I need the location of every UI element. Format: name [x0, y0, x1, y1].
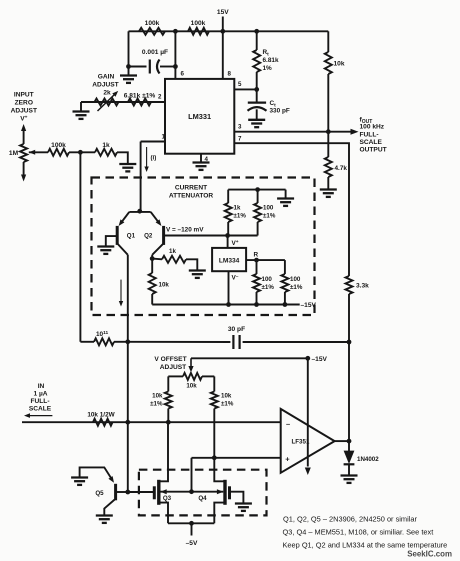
svg-text:Q1, Q2, Q5 – 2N3906, 2N4250 or: Q1, Q2, Q5 – 2N3906, 2N4250 or similar [283, 515, 417, 524]
label -15V op [312, 356, 328, 363]
resistor 4.7k [325, 132, 332, 190]
transistor Q5 collector [104, 500, 114, 516]
resistor 100k (input) [48, 149, 69, 156]
resistor 1k (input) [95, 149, 117, 156]
transistor Q1 emitter [119, 212, 130, 226]
node junction summing [125, 339, 130, 344]
label SCALE [29, 406, 52, 413]
svg-text:OUTPUT: OUTPUT [360, 147, 387, 154]
wire 1e11 to node [114, 341, 128, 343]
svg-text:2k: 2k [103, 90, 111, 97]
wire pin 2 gain [81, 101, 165, 103]
label 10k 1/2W [87, 412, 115, 419]
svg-text:Q4: Q4 [198, 495, 207, 502]
transistor Q4 channel bar [223, 480, 226, 505]
transistor Q4 source [214, 503, 224, 524]
svg-text:±1%: ±1% [263, 213, 276, 220]
ground (pin 4) [193, 163, 210, 170]
svg-text:100k: 100k [51, 142, 66, 149]
svg-text:10k 1/2W: 10k 1/2W [87, 412, 115, 419]
resistor 1k (Q2 collector) [162, 256, 186, 263]
wire op-amp output [335, 440, 349, 442]
svg-text:LM334: LM334 [219, 258, 240, 265]
node junction Q2 collector [150, 256, 155, 261]
label 100 [263, 205, 274, 212]
node junction 15V [220, 29, 225, 34]
svg-text:10k: 10k [221, 393, 232, 400]
svg-text:+: + [285, 455, 290, 464]
label +/-1% [290, 284, 303, 291]
svg-text:GAIN: GAIN [98, 74, 115, 81]
transistor Q5 base bar [114, 484, 117, 501]
node junction sources [189, 521, 194, 526]
svg-text:ATTENUATOR: ATTENUATOR [169, 193, 214, 200]
wire noninv corner [191, 458, 193, 492]
wire input row [22, 421, 281, 423]
svg-text:10k: 10k [159, 282, 170, 289]
arrow i down [119, 280, 123, 307]
label 10k [186, 383, 197, 390]
capacitor 30 pF [233, 335, 239, 349]
svg-text:330 pF: 330 pF [270, 108, 290, 115]
transistor Q4 gate bar [228, 486, 231, 499]
wire -15V supply line [307, 358, 309, 466]
label 1k [234, 205, 241, 212]
node junction R [254, 258, 259, 263]
pin label 4 [205, 156, 209, 163]
label ADJUST [160, 364, 186, 371]
node junction fout [326, 129, 331, 134]
node junction input divider [78, 150, 83, 155]
wire Q1 collector down [127, 255, 129, 342]
ground (Ct) [248, 120, 265, 127]
label 1M [9, 150, 19, 157]
node junction V- rail [226, 302, 231, 307]
svg-text:Q3, Q4 – MEM551, M108, or sim: Q3, Q4 – MEM551, M108, or similiar. See … [283, 528, 434, 537]
node junction 100R rail [283, 302, 288, 307]
wire R pin [246, 259, 285, 261]
wire V- drop [228, 271, 230, 304]
transistor Q5 emitter wire [80, 467, 112, 479]
arrow -15V supply [305, 468, 311, 476]
node junction inverting left [166, 420, 171, 425]
resistor 10k 1% (left) [165, 376, 172, 422]
potentiometer gain 2k [95, 91, 119, 111]
dashed box Q3 Q4 [139, 470, 267, 516]
wire divider bottom [228, 235, 258, 237]
svg-text:–: – [286, 420, 290, 429]
svg-text:(i): (i) [151, 155, 157, 162]
transistor Q3 source [160, 503, 168, 524]
svg-text:0.001 µF: 0.001 µF [142, 49, 168, 56]
transistor Q1 base bar [116, 226, 119, 245]
svg-text:±1%: ±1% [262, 284, 275, 291]
wire pin 8 [222, 31, 224, 79]
arrow (i) current [144, 147, 148, 172]
node junction pin6 top [173, 29, 178, 34]
svg-text:LF351: LF351 [292, 439, 310, 446]
note line 1 [283, 515, 417, 524]
wire to 1k [152, 258, 162, 261]
wire pin 1 [141, 141, 165, 143]
node junction Q5 base [125, 490, 130, 495]
potentiometer 1M [20, 124, 27, 182]
ground (4.7k) [320, 190, 337, 197]
transistor Q3 gate bar [153, 486, 156, 499]
node junction output [347, 439, 352, 444]
svg-text:V = –120 mV: V = –120 mV [166, 227, 204, 234]
svg-text:R: R [254, 252, 259, 259]
wire Q2 base [165, 235, 228, 237]
label ADJUST [11, 108, 37, 115]
label 100k [51, 142, 66, 149]
label 1k [102, 142, 110, 149]
label 0.001 uF [142, 49, 168, 56]
pin label 8 [228, 71, 232, 78]
label +/-1% (L) [150, 401, 163, 408]
resistor 100 1% (left R) [253, 260, 260, 304]
transistor Q3 body arrow [160, 489, 191, 494]
transistor Q1 base wire [106, 236, 116, 246]
transistor Q1 collector [118, 244, 128, 255]
label ADJUST [92, 82, 118, 89]
label Rt [263, 49, 270, 58]
node junction summing row [125, 420, 130, 425]
wire left rail corner [80, 341, 94, 343]
svg-text:ZERO: ZERO [15, 100, 33, 107]
svg-text:5: 5 [238, 81, 242, 88]
node junction pin6 cap [173, 64, 178, 69]
wire cap to pin6 [129, 66, 176, 68]
op-amp U1 LM331 box [165, 79, 234, 154]
svg-text:Keep Q1, Q2 and LM334 at the s: Keep Q1, Q2 and LM334 at the same temper… [283, 541, 448, 550]
node junction cap left [126, 64, 131, 69]
label 330 pF [270, 108, 290, 115]
wire noninv row [192, 457, 281, 459]
svg-text:1M: 1M [9, 150, 19, 157]
svg-text:100: 100 [290, 276, 301, 283]
pin label 1 [162, 134, 166, 141]
label 6.81k [263, 57, 279, 64]
node junction Rt top [254, 29, 259, 34]
current source U2 LM334 box [212, 248, 246, 271]
wire emitter bus [129, 211, 150, 213]
arrow offset wiper [188, 358, 193, 372]
transistor Q2 base bar [162, 226, 165, 245]
svg-text:1011: 1011 [96, 330, 109, 338]
transistor Q5 emitter arrow [108, 476, 114, 483]
label 100k [145, 20, 160, 27]
label Q5 [95, 490, 104, 497]
supply 15V [217, 9, 229, 31]
node junction noninv [212, 455, 217, 460]
svg-text:V+: V+ [20, 116, 27, 123]
svg-text:INPUT: INPUT [14, 92, 34, 99]
label Q1 [127, 233, 136, 240]
node junction emitters [137, 209, 142, 214]
transistor Q2 emitter [151, 212, 162, 226]
resistor 1e11 ohm [94, 338, 114, 345]
svg-text:1: 1 [162, 134, 166, 141]
ground (divider) [277, 199, 294, 206]
label 1k [169, 248, 176, 255]
note line 3 [283, 541, 448, 550]
svg-text:1N4002: 1N4002 [357, 456, 379, 463]
wire divider top [228, 189, 285, 191]
svg-text:100k: 100k [145, 20, 160, 27]
resistor Rt 6.81k 1% [253, 31, 260, 89]
wire 100k to junction [69, 151, 95, 153]
svg-text:SCALE: SCALE [360, 139, 383, 146]
wire left rail [79, 152, 81, 341]
pin label 2 [158, 94, 162, 101]
wire -5V stub [191, 523, 193, 535]
wire right rail [348, 294, 350, 441]
transistor Q5 base wire [117, 491, 128, 493]
label 100k [191, 20, 206, 27]
diode 1N4002 [344, 441, 355, 475]
label R [254, 252, 259, 259]
svg-text:8: 8 [228, 71, 232, 78]
node junction divider top [255, 187, 260, 192]
svg-text:Q3: Q3 [163, 495, 172, 502]
label Q4 [198, 495, 207, 502]
resistor 1k 1% (divider) [225, 190, 232, 236]
transistor Q2 collector [152, 244, 163, 259]
ground (diode) [341, 476, 358, 483]
label +/-1% (R) [221, 401, 234, 408]
wire summing to Q5 [127, 422, 129, 492]
svg-text:FULL-: FULL- [360, 132, 379, 139]
label +/-1% [262, 284, 275, 291]
label Q2 [144, 233, 153, 240]
svg-text:LM331: LM331 [188, 112, 211, 121]
svg-text:1k: 1k [102, 142, 110, 149]
label -15V rail [301, 302, 317, 309]
label V = -120 mV [166, 227, 204, 234]
label minus input [286, 420, 290, 429]
label 10k (L) [152, 393, 163, 400]
wire summing down [127, 342, 129, 422]
svg-text:±1%: ±1% [221, 401, 234, 408]
label 1N4002 [357, 456, 379, 463]
label 30 pF [228, 326, 245, 333]
label FULL- [30, 398, 49, 405]
wire pin 3 fout [234, 131, 352, 133]
node junction -15V op [305, 356, 310, 361]
label INPUT [14, 92, 34, 99]
label FULL- [360, 132, 379, 139]
pin label 5 [238, 81, 242, 88]
resistor 3.3k [346, 276, 353, 294]
label 1 uA [33, 391, 47, 398]
wire -15V rail [152, 304, 300, 306]
label ATTENUATOR [169, 193, 214, 200]
svg-text:–15V: –15V [312, 356, 328, 363]
wire sources bus [168, 522, 214, 524]
ground (1k input) [119, 164, 136, 171]
pin label 3 [238, 124, 242, 131]
ground (Q1 base) [97, 247, 114, 254]
label 10k (R) [221, 393, 232, 400]
wire pin 6 [174, 31, 176, 79]
resistor 10k (output pull-up) [325, 31, 332, 131]
svg-text:–15V: –15V [301, 302, 317, 309]
label fOUT [360, 117, 373, 126]
label 10k [159, 282, 170, 289]
node junction 100L rail [254, 302, 259, 307]
label 3.3k [356, 283, 369, 290]
transistor Q3 drain [160, 422, 168, 481]
label 2k [103, 90, 111, 97]
wire pin 4 [200, 154, 202, 163]
label LF351 [292, 439, 310, 446]
label V OFFSET [154, 356, 186, 363]
svg-text:1k: 1k [234, 205, 241, 212]
label 10^11 [96, 330, 109, 338]
resistor 100 1% (right R) [281, 260, 288, 304]
wire V+ drop [227, 236, 229, 248]
wire 30pF left [128, 341, 231, 343]
svg-text:Q5: Q5 [95, 490, 104, 497]
resistor 10k (Q2) [149, 259, 156, 305]
label ZERO [15, 100, 33, 107]
label -5V [186, 540, 198, 547]
wiper arrow 1M [29, 150, 48, 155]
svg-text:ADJUST: ADJUST [11, 108, 37, 115]
svg-text:1k: 1k [169, 248, 176, 255]
ground (Q5 collector) [96, 516, 113, 523]
label (i) [151, 155, 157, 162]
svg-text:V–: V– [232, 275, 239, 282]
wire pin1 to emitters [140, 142, 142, 212]
node junction pin5 Ct [254, 87, 259, 92]
wire 1k to ground [117, 152, 128, 164]
label 100 [290, 276, 301, 283]
wire 30pF right [243, 341, 349, 343]
transistor Q4 body arrow [192, 489, 224, 494]
svg-text:3: 3 [238, 124, 242, 131]
transistor Q4 gate wire [231, 492, 244, 504]
svg-text:30 pF: 30 pF [228, 326, 245, 333]
svg-text:100: 100 [263, 205, 274, 212]
svg-text:Q1: Q1 [127, 233, 136, 240]
label +/-1% [234, 213, 247, 220]
label 100 kHz [360, 124, 385, 131]
label plus input [285, 455, 290, 464]
capacitor Ct 330 pF [248, 89, 267, 119]
node junction bodies [189, 489, 194, 494]
label 10k [334, 61, 345, 68]
svg-text:3.3k: 3.3k [356, 283, 369, 290]
svg-text:–5V: –5V [186, 540, 198, 547]
wire divider top ground drop [285, 190, 287, 199]
svg-text:V OFFSET: V OFFSET [154, 356, 186, 363]
label 1% [263, 65, 273, 72]
node junction V+ node [225, 233, 230, 238]
label 6.81k +/-1% [124, 93, 156, 100]
transistor Q4 drain [214, 458, 224, 482]
arrow input current [24, 413, 52, 418]
node junction 30pF right [347, 340, 352, 345]
watermark SeekIC.com [407, 550, 452, 559]
resistor 100k (right feedback) [188, 28, 209, 35]
svg-text:ADJUST: ADJUST [92, 82, 118, 89]
dashed box current attenuator [92, 178, 315, 316]
svg-text:4.7k: 4.7k [335, 165, 348, 172]
svg-text:IN: IN [38, 383, 45, 390]
svg-text:±1%: ±1% [290, 284, 303, 291]
ground (1k attenuator) [189, 271, 206, 278]
transistor Q3 channel bar [157, 480, 160, 505]
resistor 100 1% (divider) [254, 190, 261, 236]
svg-text:100k: 100k [191, 20, 206, 27]
svg-text:CURRENT: CURRENT [175, 185, 207, 192]
svg-text:FULL-: FULL- [30, 398, 49, 405]
wire top rail 15V feedback [129, 30, 329, 32]
svg-text:15V: 15V [217, 9, 229, 16]
svg-text:1%: 1% [263, 65, 273, 72]
label V+ [20, 116, 27, 123]
label Ct [270, 100, 277, 109]
svg-text:2: 2 [158, 94, 162, 101]
op-amp U3 LF351 triangle [281, 409, 335, 473]
pin label 6 [181, 71, 185, 78]
wire 1k to ground [186, 259, 197, 270]
svg-text:SeekIC.com: SeekIC.com [407, 550, 452, 559]
wire pin 5 [234, 88, 256, 90]
resistor 10k 1% (right) [211, 376, 218, 457]
wire offset wiper [191, 357, 308, 359]
wire left feedback drop [128, 31, 130, 74]
svg-text:Q2: Q2 [144, 233, 153, 240]
ground (Q4 gate) [235, 504, 252, 511]
resistor 6.81k 1% (pin2) [128, 99, 151, 106]
label GAIN [98, 74, 115, 81]
svg-text:10k: 10k [186, 383, 197, 390]
svg-text:1 µA: 1 µA [33, 391, 47, 398]
wire Q5 base to Q3 gate [128, 491, 153, 493]
svg-text:10k: 10k [334, 61, 345, 68]
svg-text:SCALE: SCALE [29, 406, 52, 413]
svg-text:±1%: ±1% [234, 213, 247, 220]
label IN [38, 383, 45, 390]
label LM331 [188, 112, 211, 121]
arrow fout output [351, 129, 359, 135]
label +/-1% [263, 213, 276, 220]
label V+ [232, 240, 239, 247]
label CURRENT [175, 185, 207, 192]
pin label 7 [238, 136, 242, 143]
svg-text:ADJUST: ADJUST [160, 364, 186, 371]
svg-text:100 kHz: 100 kHz [360, 124, 385, 131]
ground (gain pot) [73, 112, 90, 119]
resistor 10k 1/2W [93, 419, 113, 426]
svg-text:6: 6 [181, 71, 185, 78]
label OUTPUT [360, 147, 387, 154]
label 100 [262, 276, 273, 283]
wire gain left drop [80, 102, 82, 112]
svg-text:V+: V+ [232, 240, 239, 247]
note line 2 [283, 528, 434, 537]
svg-text:7: 7 [238, 136, 242, 143]
label LM334 [219, 258, 240, 265]
wire pin 7 [234, 143, 349, 276]
resistor 100k (left feedback) [139, 28, 165, 35]
svg-text:±1%: ±1% [150, 401, 163, 408]
ground (left feedback) [120, 76, 137, 83]
capacitor 0.001 uF [150, 60, 160, 74]
